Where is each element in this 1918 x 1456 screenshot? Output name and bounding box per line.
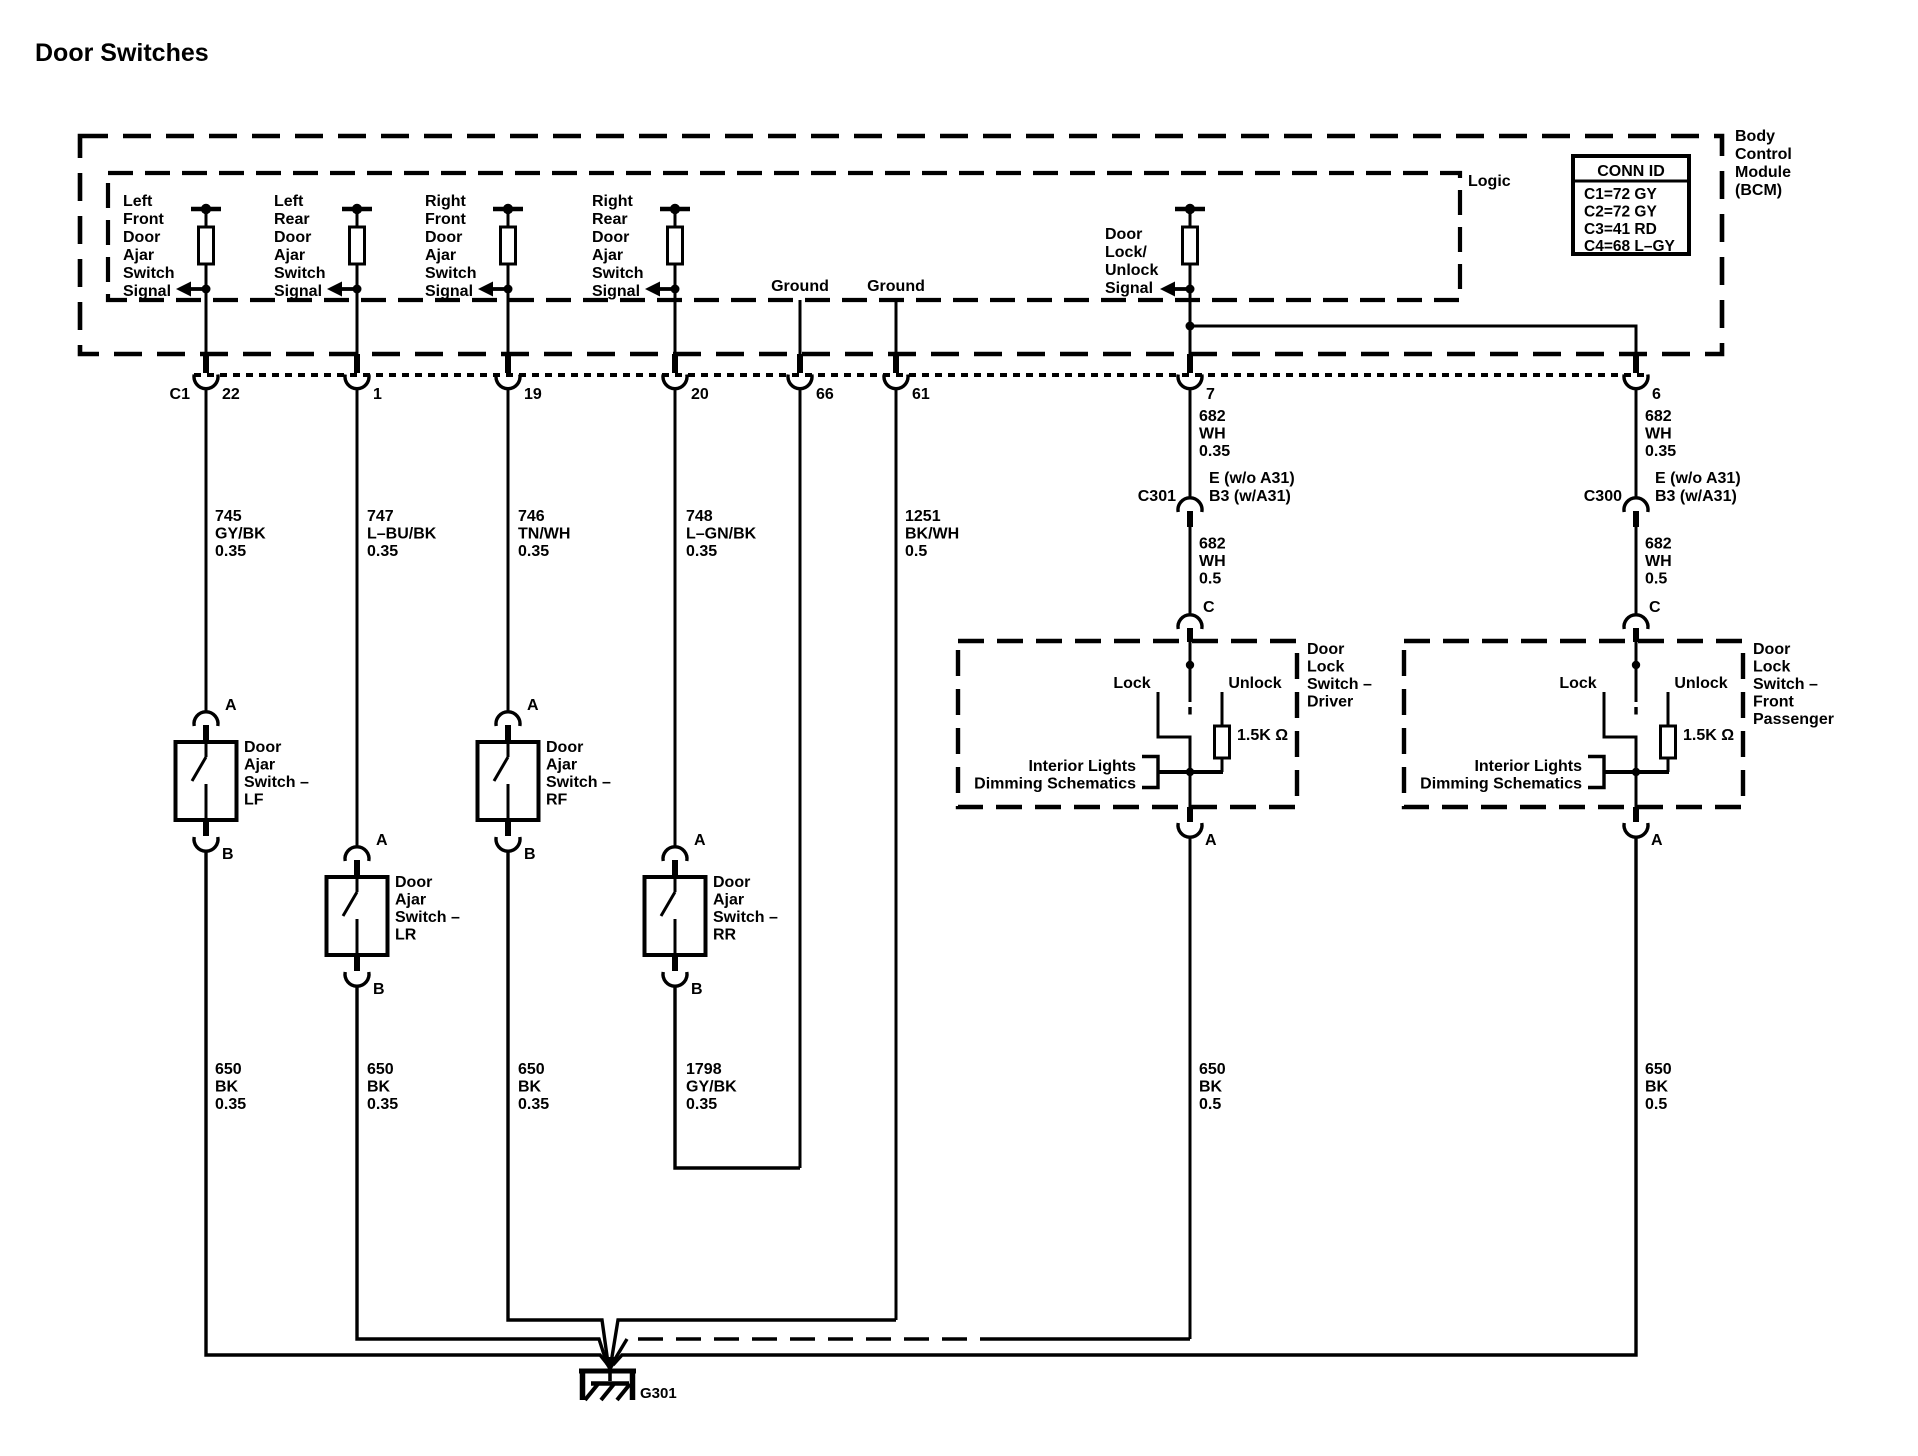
connector pin 19: male stub and female cup — [496, 354, 520, 389]
wire 746 TN/WH from pin 19 to RF switch A — [507, 388, 510, 712]
svg-text:0.35: 0.35 — [215, 543, 246, 560]
Interior Lights Dimming Schematics bracket and tie line (Front Passenger) — [1588, 757, 1669, 788]
svg-text:66: 66 — [816, 386, 834, 403]
svg-text:Door: Door — [592, 229, 629, 246]
svg-text:WH: WH — [1645, 553, 1672, 570]
svg-text:Signal: Signal — [123, 283, 171, 300]
terminal A connector (cap arc and stub) at Door Ajar Switch RF — [496, 712, 520, 744]
switch blade (Door Ajar Switch LF) — [192, 742, 206, 820]
label: Right Front Door Ajar Switch Signal — [425, 193, 477, 300]
connector C300 inline (cap arc and male stub) — [1624, 498, 1648, 527]
label: Door Ajar Switch - LF — [244, 739, 309, 809]
door lock switch Driver dashed box — [958, 641, 1297, 807]
label: Right Rear Door Ajar Switch Signal — [592, 193, 644, 300]
connector pin 7: male stub and female cup — [1178, 354, 1202, 389]
wire RF ajar signal from arrow junction to BCM pin — [507, 289, 510, 354]
connector pin 1: male stub and female cup — [345, 354, 369, 389]
svg-text:682: 682 — [1199, 408, 1226, 425]
svg-text:GY/BK: GY/BK — [686, 1079, 737, 1096]
svg-text:GY/BK: GY/BK — [215, 526, 266, 543]
label: 746 TN/WH 0.35 — [518, 508, 570, 560]
svg-text:650: 650 — [215, 1061, 242, 1078]
svg-text:Switch: Switch — [274, 265, 326, 282]
svg-text:Ground: Ground — [771, 278, 829, 295]
svg-text:Ajar: Ajar — [546, 757, 577, 774]
svg-text:682: 682 — [1645, 536, 1672, 553]
diagonal feed from dashed run into G301 — [612, 1339, 627, 1364]
terminal C connector (cap arc and stub) at C301 branch — [1178, 615, 1202, 642]
svg-text:G301: G301 — [640, 1385, 677, 1402]
svg-text:A: A — [376, 832, 388, 849]
svg-text:746: 746 — [518, 508, 545, 525]
svg-text:A: A — [225, 697, 237, 714]
label: 1798 GY/BK 0.35 (RR) — [686, 1061, 737, 1113]
resistor Right Front Door Ajar pull-up (T-bar, body, leads) — [493, 204, 523, 289]
svg-text:Unlock: Unlock — [1674, 675, 1727, 692]
svg-text:L–GN/BK: L–GN/BK — [686, 526, 757, 543]
label: 650 BK 0.5 (driver) — [1199, 1061, 1226, 1113]
label: 650 BK 0.35 (RF) — [518, 1061, 549, 1113]
svg-text:0.35: 0.35 — [367, 543, 398, 560]
svg-text:Ajar: Ajar — [395, 892, 426, 909]
svg-text:Switch: Switch — [425, 265, 477, 282]
wire 1251 BK/WH ground run from pin 61 wire to G301 — [611, 1320, 896, 1363]
wire ground pin 61 from Logic box edge down — [895, 300, 898, 354]
label: Left Front Door Ajar Switch Signal — [123, 193, 175, 300]
svg-text:Ajar: Ajar — [425, 247, 456, 264]
svg-text:BK: BK — [518, 1079, 542, 1096]
svg-text:Dimming Schematics: Dimming Schematics — [974, 776, 1136, 793]
svg-text:0.5: 0.5 — [1199, 571, 1221, 588]
door lock switch Front Passenger dashed box — [1404, 641, 1743, 807]
terminal C connector (cap arc and stub) at C300 branch — [1624, 615, 1648, 642]
ground G301 symbol — [579, 1371, 636, 1400]
svg-text:TN/WH: TN/WH — [518, 526, 570, 543]
svg-text:B: B — [691, 981, 703, 998]
svg-text:Left: Left — [274, 193, 304, 210]
connector pin 61: male stub and female cup — [884, 354, 908, 389]
svg-text:1.5K Ω: 1.5K Ω — [1237, 727, 1288, 744]
switch blade (Door Ajar Switch LR) — [343, 877, 357, 955]
node: junction dot on door lock signal wire — [1186, 322, 1195, 331]
resistor Door Lock/Unlock pull-up (T-bar, body, leads) — [1175, 204, 1205, 289]
svg-text:B: B — [524, 846, 536, 863]
svg-text:(BCM): (BCM) — [1735, 182, 1782, 199]
svg-text:0.35: 0.35 — [518, 1096, 549, 1113]
svg-text:0.5: 0.5 — [905, 543, 927, 560]
svg-text:A: A — [1205, 832, 1217, 849]
svg-text:Front: Front — [1753, 694, 1795, 711]
switch blade (Door Ajar Switch RF) — [494, 742, 508, 820]
svg-text:Switch: Switch — [123, 265, 175, 282]
svg-text:Lock: Lock — [1753, 659, 1790, 676]
svg-text:19: 19 — [524, 386, 542, 403]
svg-text:C: C — [1649, 599, 1661, 616]
wire 682 WH from pin 6 to C300 — [1635, 388, 1638, 499]
label: 650 BK 0.35 (LR) — [367, 1061, 398, 1113]
label: Door Lock Switch - Driver — [1307, 641, 1372, 711]
svg-text:E (w/o A31): E (w/o A31) — [1655, 470, 1741, 487]
svg-text:C1: C1 — [170, 386, 191, 403]
svg-text:1: 1 — [373, 386, 382, 403]
svg-text:Ajar: Ajar — [244, 757, 275, 774]
svg-text:Left: Left — [123, 193, 153, 210]
svg-text:RF: RF — [546, 792, 568, 809]
svg-text:Door: Door — [425, 229, 462, 246]
wire branch from junction to pin 6 (horizontal then down) — [1190, 326, 1636, 354]
svg-text:Interior Lights: Interior Lights — [1474, 758, 1582, 775]
svg-text:Control: Control — [1735, 146, 1792, 163]
terminal A connector (cap arc and stub) at Door Ajar Switch LR — [345, 847, 369, 879]
switch pole wire with junction dot (Driver) — [1186, 641, 1194, 715]
svg-text:Lock: Lock — [1307, 659, 1344, 676]
svg-text:Switch –: Switch – — [546, 774, 611, 791]
switch output wire to terminal A (Driver) — [1189, 772, 1192, 807]
CONN ID table — [1573, 156, 1689, 255]
terminal A connector (stub and cup) (Front Passenger) — [1624, 807, 1648, 837]
svg-text:Ajar: Ajar — [123, 247, 154, 264]
svg-text:Front: Front — [425, 211, 467, 228]
Lock contact branch (Front Passenger) — [1604, 692, 1636, 772]
label: 682 WH 0.5 below C300 — [1645, 536, 1672, 588]
svg-text:0.35: 0.35 — [518, 543, 549, 560]
svg-text:Door: Door — [1307, 641, 1344, 658]
terminal B connector (stub and cup) at Door Ajar Switch RR — [663, 955, 687, 986]
terminal B connector (stub and cup) at Door Ajar Switch LF — [194, 820, 218, 851]
svg-text:650: 650 — [367, 1061, 394, 1078]
label: Door Ajar Switch - RR — [713, 874, 778, 944]
svg-text:LF: LF — [244, 792, 264, 809]
wire 682 WH 0.5 below C300 — [1635, 527, 1638, 615]
svg-text:745: 745 — [215, 508, 242, 525]
svg-text:Switch –: Switch – — [395, 909, 460, 926]
svg-text:650: 650 — [1645, 1061, 1672, 1078]
svg-text:Switch –: Switch – — [244, 774, 309, 791]
wire 682 WH from pin 7 to C301 — [1189, 388, 1192, 499]
svg-text:1251: 1251 — [905, 508, 941, 525]
svg-text:Ajar: Ajar — [713, 892, 744, 909]
svg-text:Switch –: Switch – — [1307, 676, 1372, 693]
svg-text:L–BU/BK: L–BU/BK — [367, 526, 437, 543]
svg-text:B: B — [222, 846, 234, 863]
switch pole wire with junction dot (Front Passenger) — [1632, 641, 1640, 715]
svg-text:Ajar: Ajar — [592, 247, 623, 264]
svg-text:0.5: 0.5 — [1645, 571, 1667, 588]
svg-text:Ground: Ground — [867, 278, 925, 295]
Interior Lights Dimming Schematics bracket and tie line (Driver) — [1142, 757, 1223, 788]
svg-text:1798: 1798 — [686, 1061, 722, 1078]
wire 650 BK from LR switch B down and right to G301 — [357, 985, 607, 1364]
wire 745 GY/BK from pin 22 to LF switch A — [205, 388, 208, 712]
svg-text:B: B — [373, 981, 385, 998]
svg-text:748: 748 — [686, 508, 713, 525]
label: 745 GY/BK 0.35 — [215, 508, 266, 560]
svg-text:0.35: 0.35 — [215, 1096, 246, 1113]
Lock contact branch (Driver) — [1158, 692, 1190, 772]
svg-text:Door: Door — [713, 874, 750, 891]
svg-text:Switch –: Switch – — [1753, 676, 1818, 693]
label: 748 L-GN/BK 0.35 — [686, 508, 757, 560]
Body Control Module (BCM) dashed outline — [80, 136, 1722, 354]
svg-text:Door: Door — [1753, 641, 1790, 658]
svg-text:Right: Right — [592, 193, 634, 210]
connector pin 20: male stub and female cup — [663, 354, 687, 389]
label: Door Lock/Unlock Signal — [1105, 226, 1158, 297]
connector pin 6: male stub and female cup — [1624, 354, 1648, 389]
svg-text:Logic: Logic — [1468, 173, 1511, 190]
pin header dotted line (BCM connector face) — [194, 373, 1648, 377]
svg-text:B3 (w/A31): B3 (w/A31) — [1655, 488, 1737, 505]
label: 1251 BK/WH 0.5 — [905, 508, 959, 560]
signal arrow at Left Front Door Ajar Switch Signal — [176, 282, 211, 297]
svg-text:WH: WH — [1199, 426, 1226, 443]
svg-text:650: 650 — [1199, 1061, 1226, 1078]
svg-text:Signal: Signal — [274, 283, 322, 300]
switch output wire to terminal A (Front Passenger) — [1635, 772, 1638, 807]
svg-text:WH: WH — [1645, 426, 1672, 443]
connector pin 66: male stub and female cup — [788, 354, 812, 389]
svg-text:Lock: Lock — [1559, 675, 1596, 692]
svg-text:BK: BK — [367, 1079, 391, 1096]
label: Door Lock Switch - Front Passenger — [1753, 641, 1834, 728]
signal arrow at Left Rear Door Ajar Switch Signal — [327, 282, 362, 297]
svg-text:Door: Door — [274, 229, 311, 246]
signal arrow at Right Front Door Ajar Switch Signal — [478, 282, 513, 297]
label: 747 L-BU/BK 0.35 — [367, 508, 437, 560]
svg-text:Door: Door — [546, 739, 583, 756]
wire ground pin 66 from Logic box edge down — [799, 300, 802, 354]
terminal A connector (cap arc and stub) at Door Ajar Switch LF — [194, 712, 218, 744]
svg-text:7: 7 — [1206, 386, 1215, 403]
wire 1798 GY/BK from RR switch B down and right to pin 66 ground wire — [675, 985, 800, 1168]
terminal A connector (stub and cup) (Driver) — [1178, 807, 1202, 837]
label: Body Control Module (BCM) — [1735, 128, 1792, 199]
svg-text:Door: Door — [1105, 226, 1142, 243]
svg-text:Unlock: Unlock — [1228, 675, 1281, 692]
svg-text:BK: BK — [215, 1079, 239, 1096]
label: 682 WH 0.35 (passenger) — [1645, 408, 1676, 460]
svg-text:C4=68 L–GY: C4=68 L–GY — [1584, 238, 1676, 255]
label: Door Ajar Switch - RF — [546, 739, 611, 809]
svg-text:Interior Lights: Interior Lights — [1028, 758, 1136, 775]
label: Interior Lights Dimming Schematics (Driver) — [974, 758, 1136, 793]
splice run to G301 (solid part) from driver door lock wire — [1005, 1337, 1190, 1340]
wire LF ajar signal from arrow junction to BCM pin — [205, 289, 208, 354]
svg-text:61: 61 — [912, 386, 930, 403]
svg-text:Door: Door — [123, 229, 160, 246]
label: Left Rear Door Ajar Switch Signal — [274, 193, 326, 300]
label: 650 BK 0.35 (LF) — [215, 1061, 246, 1113]
wire ground pin 66 down to junction with RR return — [799, 388, 802, 1168]
door ajar switch RF box — [478, 742, 539, 820]
resistor Right Rear Door Ajar pull-up (T-bar, body, leads) — [660, 204, 690, 289]
svg-text:Rear: Rear — [274, 211, 310, 228]
svg-text:E (w/o A31): E (w/o A31) — [1209, 470, 1295, 487]
resistor 1.5K lead and body (Driver) — [1215, 692, 1230, 772]
svg-text:Driver: Driver — [1307, 694, 1353, 711]
wire 650 BK from passenger door lock switch A down and left to G301 — [613, 837, 1636, 1365]
wire 748 L-GN/BK from pin 20 to RR switch A — [674, 388, 677, 848]
svg-text:C3=41 RD: C3=41 RD — [1584, 221, 1657, 238]
svg-text:747: 747 — [367, 508, 394, 525]
svg-text:Passenger: Passenger — [1753, 711, 1834, 728]
label: Interior Lights Dimming Schematics (Front Passenger) — [1420, 758, 1582, 793]
door ajar switch LF box — [176, 742, 237, 820]
svg-text:Signal: Signal — [592, 283, 640, 300]
svg-text:0.35: 0.35 — [686, 543, 717, 560]
svg-text:Door: Door — [244, 739, 281, 756]
svg-text:Switch: Switch — [592, 265, 644, 282]
door ajar switch RR box — [645, 877, 706, 955]
label: 682 WH 0.5 below C301 — [1199, 536, 1226, 588]
svg-text:Signal: Signal — [1105, 280, 1153, 297]
splice run to G301 (dashed part) — [627, 1337, 1005, 1340]
svg-text:1.5K Ω: 1.5K Ω — [1683, 727, 1734, 744]
wire RR ajar signal from arrow junction to BCM pin — [674, 289, 677, 354]
svg-text:A: A — [694, 832, 706, 849]
svg-text:C2=72 GY: C2=72 GY — [1584, 204, 1657, 221]
wire 650 BK from RF switch B down and right to G301 — [508, 850, 608, 1363]
svg-text:C301: C301 — [1138, 488, 1176, 505]
svg-text:Dimming Schematics: Dimming Schematics — [1420, 776, 1582, 793]
svg-text:BK: BK — [1199, 1079, 1223, 1096]
label: E (w/o A31) B3 (w/A31) at C300 — [1655, 470, 1741, 505]
svg-text:Body: Body — [1735, 128, 1775, 145]
svg-text:LR: LR — [395, 927, 417, 944]
svg-text:Module: Module — [1735, 164, 1791, 181]
terminal B connector (stub and cup) at Door Ajar Switch RF — [496, 820, 520, 851]
connector pin 22: male stub and female cup — [194, 354, 218, 389]
terminal A connector (cap arc and stub) at Door Ajar Switch RR — [663, 847, 687, 879]
svg-text:20: 20 — [691, 386, 709, 403]
wire door lock signal from arrow junction to pin 7 — [1189, 289, 1192, 354]
wire 747 L-BU/BK from pin 1 to LR switch A — [356, 388, 359, 848]
ground G301 convergence arrowhead — [601, 1357, 619, 1372]
resistor Left Rear Door Ajar pull-up (T-bar, body, leads) — [342, 204, 372, 289]
svg-text:682: 682 — [1199, 536, 1226, 553]
svg-text:BK/WH: BK/WH — [905, 526, 959, 543]
svg-text:Front: Front — [123, 211, 165, 228]
svg-text:0.35: 0.35 — [1645, 443, 1676, 460]
wire LR ajar signal from arrow junction to BCM pin — [356, 289, 359, 354]
label: 650 BK 0.5 (passenger) — [1645, 1061, 1672, 1113]
svg-text:A: A — [527, 697, 539, 714]
Logic block dashed outline inside BCM — [108, 173, 1460, 300]
svg-text:A: A — [1651, 832, 1663, 849]
signal arrow at Door Lock/Unlock Signal — [1160, 282, 1195, 297]
resistor Left Front Door Ajar pull-up (T-bar, body, leads) — [191, 204, 221, 289]
svg-text:Switch –: Switch – — [713, 909, 778, 926]
svg-text:C300: C300 — [1584, 488, 1622, 505]
svg-text:Ajar: Ajar — [274, 247, 305, 264]
label: Door Ajar Switch - LR — [395, 874, 460, 944]
svg-text:B3 (w/A31): B3 (w/A31) — [1209, 488, 1291, 505]
wire 1251 BK/WH from pin 61 down to G301 run — [895, 388, 898, 1320]
svg-text:22: 22 — [222, 386, 240, 403]
svg-text:0.35: 0.35 — [367, 1096, 398, 1113]
switch blade (Door Ajar Switch RR) — [661, 877, 675, 955]
svg-text:RR: RR — [713, 927, 737, 944]
svg-text:0.35: 0.35 — [1199, 443, 1230, 460]
svg-text:C: C — [1203, 599, 1215, 616]
wire 682 WH 0.5 below C301 — [1189, 527, 1192, 615]
svg-text:WH: WH — [1199, 553, 1226, 570]
svg-text:Signal: Signal — [425, 283, 473, 300]
signal arrow at Right Rear Door Ajar Switch Signal — [645, 282, 680, 297]
svg-text:CONN ID: CONN ID — [1597, 163, 1665, 180]
label: E (w/o A31) B3 (w/A31) at C301 — [1209, 470, 1295, 505]
svg-text:C1=72 GY: C1=72 GY — [1584, 186, 1657, 203]
svg-text:Door Switches: Door Switches — [35, 39, 209, 67]
svg-text:Lock/: Lock/ — [1105, 244, 1147, 261]
wire 650 BK from LF switch B down and right to G301 — [206, 850, 608, 1365]
svg-text:Door: Door — [395, 874, 432, 891]
svg-text:Unlock: Unlock — [1105, 262, 1158, 279]
svg-text:Rear: Rear — [592, 211, 628, 228]
svg-text:Right: Right — [425, 193, 467, 210]
terminal B connector (stub and cup) at Door Ajar Switch LR — [345, 955, 369, 986]
connector C301 inline (cap arc and male stub) — [1178, 498, 1202, 527]
svg-text:650: 650 — [518, 1061, 545, 1078]
svg-text:0.5: 0.5 — [1645, 1096, 1667, 1113]
label: 682 WH 0.35 (driver) — [1199, 408, 1230, 460]
svg-text:0.35: 0.35 — [686, 1096, 717, 1113]
door ajar switch LR box — [327, 877, 388, 955]
svg-text:0.5: 0.5 — [1199, 1096, 1221, 1113]
svg-text:Lock: Lock — [1113, 675, 1150, 692]
resistor 1.5K lead and body (Front Passenger) — [1661, 692, 1676, 772]
svg-text:6: 6 — [1652, 386, 1661, 403]
svg-text:682: 682 — [1645, 408, 1672, 425]
svg-text:BK: BK — [1645, 1079, 1669, 1096]
wire 650 BK from driver door lock switch A down to splice run — [1189, 837, 1192, 1339]
